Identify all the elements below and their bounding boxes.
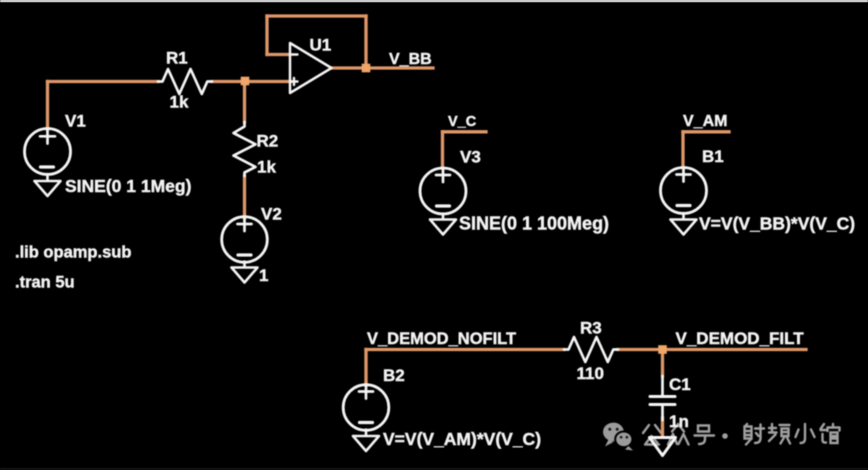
char guan [821, 424, 840, 443]
ground (V2) [232, 262, 258, 283]
wire V3 vertical [441, 132, 444, 168]
char zhong [668, 424, 689, 445]
separator dot [722, 433, 728, 439]
wire feedback top horizontal [267, 14, 366, 17]
svg-text:V_C: V_C [448, 114, 477, 130]
char pin [769, 424, 790, 444]
op-amp U1 [290, 43, 332, 93]
ground (V3) [430, 214, 456, 235]
wire V3 label stub [443, 130, 487, 133]
voltage source V3 [420, 168, 466, 214]
op-amp U1 plus sign [291, 78, 298, 85]
ground (B1) [671, 213, 697, 235]
wire V1 top vertical [46, 82, 49, 130]
char hao [695, 426, 715, 445]
svg-text:V2: V2 [261, 205, 282, 224]
svg-text:V=V(V_AM)*V(V_C): V=V(V_AM)*V(V_C) [383, 429, 541, 449]
svg-text:SINE(0 1 100Meg): SINE(0 1 100Meg) [459, 214, 609, 234]
node V_DEMOD_FILT junction [658, 345, 667, 354]
op-amp U1 minus sign [291, 53, 298, 55]
wire feedback left vertical [265, 16, 268, 55]
capacitor C1 [661, 376, 664, 395]
wire op-amp output to V_BB [332, 66, 433, 69]
svg-text:1k: 1k [257, 158, 276, 177]
char xiao [796, 424, 815, 443]
svg-text:.tran 5u: .tran 5u [15, 274, 75, 292]
wire R1 to op-amp + input through node A [212, 80, 290, 83]
wire B2 vertical [364, 350, 367, 386]
wire feedback right vertical [364, 16, 367, 65]
svg-text:V1: V1 [65, 112, 86, 131]
svg-text:B1: B1 [702, 147, 724, 166]
svg-text:R2: R2 [257, 132, 279, 151]
voltage source V1 [25, 129, 71, 175]
wire B1 label stub [683, 130, 729, 133]
svg-text:V3: V3 [460, 148, 481, 167]
voltage source V2 [222, 217, 268, 263]
node A junction (R1/R2/opamp) [241, 77, 250, 86]
ground (V1) [35, 174, 61, 196]
svg-text:SINE(0 1 1Meg): SINE(0 1 1Meg) [65, 176, 191, 196]
char gong [643, 425, 661, 445]
resistor R3 [564, 337, 618, 362]
resistor R2 [234, 122, 256, 176]
ground (B2) [353, 430, 379, 452]
svg-text:R3: R3 [580, 319, 602, 338]
svg-text:110: 110 [577, 364, 604, 383]
wire node A down to R2 [243, 82, 246, 123]
ground (C1) [650, 438, 676, 456]
svg-text:C1: C1 [669, 375, 691, 394]
behavioral source B1 [661, 168, 707, 214]
wire node C down to C1 [661, 350, 664, 377]
svg-text:1k: 1k [170, 93, 189, 112]
svg-text:.lib opamp.sub: .lib opamp.sub [15, 244, 131, 262]
svg-text:R1: R1 [166, 49, 188, 68]
wire V1 to R1 [48, 80, 159, 83]
node V_BB junction [362, 64, 371, 73]
watermark text (simplified CJK strokes) [643, 424, 840, 445]
svg-text:V_AM: V_AM [683, 113, 727, 130]
svg-text:V_BB: V_BB [389, 51, 432, 68]
char she [745, 424, 765, 445]
svg-text:1: 1 [259, 266, 268, 285]
watermark wechat icon [603, 423, 633, 451]
wire op-amp minus input stub [267, 53, 289, 56]
svg-text:1n: 1n [669, 412, 689, 431]
wire R3 to V_DEMOD_FILT end [618, 348, 806, 351]
wire B2 to R3 [366, 348, 564, 351]
behavioral source B2 [343, 385, 389, 431]
wire B1 vertical [681, 132, 684, 168]
svg-text:V_DEMOD_NOFILT: V_DEMOD_NOFILT [367, 330, 516, 348]
wire C1 bottom to ground [661, 418, 664, 437]
svg-text:U1: U1 [310, 36, 332, 55]
wire R2 to V2 [243, 176, 246, 218]
svg-text:V_DEMOD_FILT: V_DEMOD_FILT [676, 329, 805, 348]
svg-text:B2: B2 [383, 366, 405, 385]
svg-text:V=V(V_BB)*V(V_C): V=V(V_BB)*V(V_C) [699, 214, 855, 234]
resistor R1 [158, 69, 212, 94]
